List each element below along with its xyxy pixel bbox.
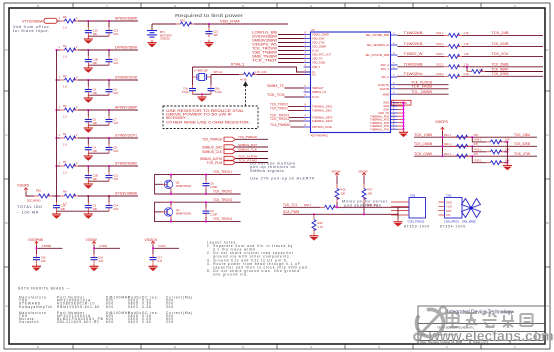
resistor R20 xyxy=(312,213,323,233)
crystal Y1 xyxy=(193,67,212,85)
svg-text:XPS 41: XPS 41 xyxy=(213,70,223,74)
svg-text:APW3V3SBW: APW3V3SBW xyxy=(115,17,137,21)
svg-text:10F: 10F xyxy=(93,207,98,211)
transistor Q1 xyxy=(155,175,192,194)
wire TCK_CNB xyxy=(414,136,537,138)
svg-text:TCK_32KB: TCK_32KB xyxy=(492,72,509,76)
node TCK_TNdT xyxy=(252,58,304,62)
svg-text:MMBT3904L: MMBT3904L xyxy=(176,184,192,188)
svg-text:SEL_24T/2BK_4BM: SEL_24T/2BK_4BM xyxy=(366,33,389,37)
table ferrite beads 1 xyxy=(19,296,193,309)
svg-text:TCK_TROV4: TCK_TROV4 xyxy=(213,217,232,221)
capacitor C6 xyxy=(85,80,98,95)
capacitor C8 xyxy=(203,175,218,194)
svg-text:10P: 10P xyxy=(213,33,218,37)
capacitor C5 xyxy=(85,110,98,125)
resistor R1b xyxy=(444,142,478,148)
svg-text:GND: GND xyxy=(383,104,389,108)
capacitor C13 xyxy=(106,21,119,36)
capacitor C2B xyxy=(85,166,98,181)
svg-text:C9: C9 xyxy=(113,88,117,92)
svg-text:TOTAL IDD: TOTAL IDD xyxy=(17,205,43,209)
resistor R13 xyxy=(471,145,510,153)
svg-text:C2B: C2B xyxy=(93,174,98,178)
ground xyxy=(84,36,93,44)
resistor R12 xyxy=(444,152,478,158)
power V3S3CN xyxy=(145,238,158,245)
wire SCA_PWM xyxy=(283,210,398,214)
resistor R7 xyxy=(57,160,79,175)
svg-text:C13: C13 xyxy=(113,29,118,33)
svg-text:C10: C10 xyxy=(93,29,98,33)
svg-text:10F: 10F xyxy=(93,61,98,65)
svg-text:32K_A: 32K_A xyxy=(381,75,389,79)
svg-text:10F: 10F xyxy=(61,207,66,211)
wire ground bus xyxy=(398,102,404,129)
wire xyxy=(88,124,109,126)
wire xyxy=(398,75,445,77)
wire xyxy=(78,165,138,167)
wire xyxy=(37,245,63,254)
svg-text:OTHER WISE USE 0 OHM RESISTOR.: OTHER WISE USE 0 OHM RESISTOR. xyxy=(166,120,250,124)
svg-text:SYW3V3CW: SYW3V3CW xyxy=(115,76,137,80)
svg-text:TCK_CNB: TCK_CNB xyxy=(414,133,432,137)
note text layout notes xyxy=(207,241,309,277)
node TCK_TROV1 xyxy=(270,106,304,110)
svg-text:200: 200 xyxy=(166,320,174,324)
svg-text:TCK_32KB: TCK_32KB xyxy=(514,142,530,146)
resistor R9 xyxy=(213,70,257,81)
svg-text:C11: C11 xyxy=(113,58,118,62)
node TCK_TROV4 xyxy=(270,117,304,121)
svg-text:Required to limit power: Required to limit power xyxy=(175,13,244,18)
svg-text:CN2: CN2 xyxy=(446,194,452,198)
svg-text:TCK_2CK: TCK_2CK xyxy=(492,52,510,56)
svg-text:TCK_24B: TCK_24B xyxy=(492,31,509,35)
capacitor C9 xyxy=(106,80,119,95)
svg-text:SCA_PWM: SCA_PWM xyxy=(283,210,299,214)
svg-text:1.0: 1.0 xyxy=(63,85,67,89)
svg-text:C4: C4 xyxy=(93,146,97,150)
svg-text:V3DDPS: V3DDPS xyxy=(435,120,448,124)
svg-text:CON_PROC: CON_PROC xyxy=(444,219,459,223)
wire xyxy=(462,55,543,57)
svg-text:300: 300 xyxy=(166,305,174,309)
svg-text:R1: R1 xyxy=(63,132,67,136)
svg-text:VDDIO_25WR: VDDIO_25WR xyxy=(312,33,329,37)
capacitor C7 xyxy=(106,110,119,125)
wire xyxy=(257,74,311,76)
ground xyxy=(84,125,93,133)
svg-text:SMBUS_CLK: SMBUS_CLK xyxy=(202,150,223,154)
svg-text:3.3CN: 3.3CN xyxy=(158,244,166,248)
svg-text:0.38: 0.38 xyxy=(142,305,152,309)
svg-text:TCA_PWM3D: TCA_PWM3D xyxy=(270,123,291,127)
svg-text:1UF: 1UF xyxy=(113,207,118,211)
wire xyxy=(155,202,241,221)
svg-text:600: 600 xyxy=(106,320,114,324)
svg-text:R6: R6 xyxy=(63,15,67,19)
svg-text:N_SS: N_SS xyxy=(312,49,319,53)
svg-text:2.2NF: 2.2NF xyxy=(210,185,218,189)
svg-text:R7: R7 xyxy=(63,160,67,164)
svg-text:V3S3PMB: V3S3PMB xyxy=(28,238,43,242)
svg-text:GND: GND xyxy=(383,101,389,105)
wire xyxy=(88,94,109,96)
svg-text:VDD_25WR: VDD_25WR xyxy=(312,45,326,49)
svg-text:T1W02KB: T1W02KB xyxy=(404,42,423,46)
svg-text:C8: C8 xyxy=(113,146,117,150)
note box xyxy=(163,106,258,129)
svg-text:MMBT3904L: MMBT3904L xyxy=(176,212,192,216)
node xyxy=(56,109,110,111)
wire xyxy=(462,34,543,36)
svg-text:TCK_TROV3: TCK_TROV3 xyxy=(213,198,232,202)
node xyxy=(56,79,110,81)
svg-text:GND: GND xyxy=(383,108,389,112)
svg-text:C3: C3 xyxy=(93,204,97,208)
svg-text:1UF: 1UF xyxy=(113,121,118,125)
svg-text:10F: 10F xyxy=(93,177,98,181)
svg-text:SYS3V3SBW: SYS3V3SBW xyxy=(115,191,137,195)
svg-text:SYW3V3CP1: SYW3V3CP1 xyxy=(115,134,137,138)
wire xyxy=(398,45,445,47)
wire xyxy=(152,23,176,25)
svg-text:VSB_T: VSB_T xyxy=(312,65,321,69)
ground xyxy=(84,153,93,161)
note text xyxy=(17,205,43,215)
svg-text:TCK_TCH: TCK_TCH xyxy=(267,93,285,97)
connector CN1 xyxy=(408,194,426,224)
svg-text:CON_TRACE: CON_TRACE xyxy=(408,219,425,223)
wire TCK_PLM2 xyxy=(235,158,268,162)
svg-text:1UF: 1UF xyxy=(157,259,162,263)
power V3DDPS xyxy=(435,120,448,131)
svg-text:C8: C8 xyxy=(210,181,214,185)
ground xyxy=(149,264,158,272)
note text xyxy=(13,25,51,33)
wire xyxy=(78,49,138,51)
node xyxy=(442,145,444,147)
wire TCK_CNW xyxy=(414,155,537,157)
svg-text:V3S3CN: V3S3CN xyxy=(145,238,158,242)
svg-text:1UF: 1UF xyxy=(113,91,118,95)
svg-text:TCL_2WNB: TCL_2WNB xyxy=(411,90,432,94)
wire TCK_CNNB xyxy=(414,145,537,147)
svg-text:TLCO: TLCO xyxy=(312,95,319,99)
svg-text:PWTRON_NCLE: PWTRON_NCLE xyxy=(312,125,332,129)
svg-text:0-768K 32F: 0-768K 32F xyxy=(194,69,208,73)
svg-text:2.2NF: 2.2NF xyxy=(210,212,218,216)
svg-text:R20: R20 xyxy=(318,221,323,225)
svg-text:R23 1: R23 1 xyxy=(437,52,445,56)
svg-text:R14 1: R14 1 xyxy=(475,138,483,142)
wire xyxy=(398,34,445,36)
svg-text:C5: C5 xyxy=(93,118,97,122)
wire xyxy=(94,245,120,254)
wire xyxy=(506,142,508,163)
resistor R21 xyxy=(437,31,470,37)
svg-text:SWRGHT: SWRGHT xyxy=(312,86,324,90)
resistor R19 xyxy=(437,72,470,78)
svg-text:5.6pF: 5.6pF xyxy=(215,90,222,94)
pin names right xyxy=(365,33,389,131)
resistor R15 xyxy=(471,155,510,164)
svg-text:R17: R17 xyxy=(368,188,373,192)
resistor R11 xyxy=(444,133,478,139)
capacitor C15 xyxy=(33,254,46,263)
svg-text:C14: C14 xyxy=(113,204,118,208)
svg-text:30Z_BEAD: 30Z_BEAD xyxy=(27,199,41,203)
svg-text:RBM100505-601-50: RBM100505-601-50 xyxy=(57,305,100,309)
svg-text:1.0: 1.0 xyxy=(63,26,67,30)
node xyxy=(56,165,110,167)
wire SMBUS_TCK xyxy=(235,147,268,151)
wire xyxy=(78,79,138,81)
capacitor C17 xyxy=(150,254,163,263)
node xyxy=(56,195,110,197)
svg-text:A: A xyxy=(546,304,548,308)
node 3.3SW xyxy=(93,244,107,249)
op-amp U8 ADT7460 xyxy=(311,28,391,138)
svg-text:THERMAL_DIA2: THERMAL_DIA2 xyxy=(312,109,332,113)
wire xyxy=(153,245,179,254)
svg-text:10F: 10F xyxy=(93,121,98,125)
svg-text:2 3: 2 3 xyxy=(479,67,483,71)
svg-text:1UF: 1UF xyxy=(98,259,103,263)
svg-text:1 PL 4.82: 1 PL 4.82 xyxy=(255,70,267,74)
svg-text:MWB: MWB xyxy=(383,92,390,96)
node TCA_PWM3D xyxy=(270,123,304,127)
svg-text:R21 1: R21 1 xyxy=(437,31,445,35)
svg-text:SNS: SNS xyxy=(446,209,452,213)
node xyxy=(201,93,203,95)
wire TCK_PWRGD xyxy=(235,135,268,139)
svg-text:47K: 47K xyxy=(474,142,479,146)
node TCK_TROV3 xyxy=(270,113,304,117)
connector CN2 xyxy=(444,194,462,224)
pin names left xyxy=(312,33,333,130)
svg-text:SEL_2FT/27W_4BM: SEL_2FT/27W_4BM xyxy=(365,53,389,57)
capacitor C12 xyxy=(106,166,119,181)
svg-text:T1W02_W: T1W02_W xyxy=(404,52,423,56)
svg-text:VDD_2TW: VDD_2TW xyxy=(312,41,325,45)
svg-text:C1B: C1B xyxy=(93,58,98,62)
node xyxy=(56,49,110,51)
resistor R2 xyxy=(57,74,79,89)
svg-text:R22 1: R22 1 xyxy=(437,63,445,67)
watermark hanzi xyxy=(447,312,533,328)
wire xyxy=(78,109,138,111)
resistor R1 xyxy=(57,132,79,147)
svg-text:C7: C7 xyxy=(113,118,117,122)
svg-text:R8 1: R8 1 xyxy=(180,19,186,23)
svg-text:1.0: 1.0 xyxy=(63,171,67,175)
node 3.3CN xyxy=(152,244,166,249)
svg-text:FAN_MFB2: FAN_MFB2 xyxy=(462,219,476,223)
resistor R19 xyxy=(335,177,346,208)
svg-text:T1W02NdB: T1W02NdB xyxy=(404,63,423,67)
pin numbers xyxy=(305,31,396,130)
svg-text:R24 1: R24 1 xyxy=(437,42,445,46)
svg-text:GND: GND xyxy=(446,200,452,204)
svg-text:ZNK_A: ZNK_A xyxy=(381,63,390,67)
ground xyxy=(503,163,512,171)
svg-text:SMBUS_LB: SMBUS_LB xyxy=(312,90,326,94)
svg-text:SMBUS_DAT: SMBUS_DAT xyxy=(238,143,257,147)
wire xyxy=(78,137,138,139)
svg-text:R15 1: R15 1 xyxy=(475,158,483,162)
node TCK_TROVW xyxy=(252,46,304,50)
svg-text:SEL_SEVIEWS_IN: SEL_SEVIEWS_IN xyxy=(367,43,389,47)
svg-text:C17: C17 xyxy=(157,256,162,260)
title text xyxy=(420,310,543,345)
wire xyxy=(155,175,241,194)
capacitor C3 xyxy=(85,196,98,211)
ground xyxy=(394,219,403,227)
svg-text:R3: R3 xyxy=(63,104,67,108)
svg-text:TCK_PLM: TCK_PLM xyxy=(207,161,223,165)
svg-text:1 3b: 1 3b xyxy=(464,52,470,56)
offpage connector TCK_PWRGD xyxy=(202,137,235,142)
svg-text:R19: R19 xyxy=(341,188,346,192)
resistor R18 xyxy=(304,203,338,210)
svg-text:10K: 10K xyxy=(341,192,346,196)
resistor R8 xyxy=(176,19,194,26)
svg-text:TCK_CNM: TCK_CNM xyxy=(514,133,530,137)
svg-text:T1W02Kb: T1W02Kb xyxy=(404,72,423,76)
svg-text:SMBus signals.: SMBus signals. xyxy=(250,169,286,173)
node xyxy=(336,206,338,208)
wire xyxy=(485,71,543,73)
node xyxy=(170,174,207,195)
capacitor C4 xyxy=(85,138,98,153)
capacitor C25 xyxy=(208,85,223,94)
svg-text:one ground via.: one ground via. xyxy=(213,272,248,276)
svg-text:TCK_TNdT: TCK_TNdT xyxy=(252,58,277,62)
node SYS3V3SBW xyxy=(252,34,304,38)
capacitor C1b xyxy=(53,196,66,211)
resistor R25 xyxy=(466,66,485,74)
svg-text:VDD_RTC_OUT: VDD_RTC_OUT xyxy=(312,53,332,57)
svg-text:TCK_27W: TCK_27W xyxy=(514,152,530,156)
svg-text:1.0: 1.0 xyxy=(63,55,67,59)
svg-text:KamayaHmpTch: KamayaHmpTch xyxy=(19,305,53,309)
svg-text:C21: C21 xyxy=(213,30,218,34)
svg-text:1 3b: 1 3b xyxy=(464,72,470,76)
svg-text:C15: C15 xyxy=(41,256,46,260)
battery BT1 xyxy=(147,24,172,41)
svg-text:KLIDCTR: KLIDCTR xyxy=(378,83,389,87)
svg-text:1 3b: 1 3b xyxy=(464,31,470,35)
svg-text:T1W02AB: T1W02AB xyxy=(404,31,423,35)
svg-text:87353-1000: 87353-1000 xyxy=(404,224,430,228)
resistor R24 xyxy=(437,42,470,48)
wire xyxy=(338,203,409,207)
svg-text:NOTE:FERRITE BEADS —: NOTE:FERRITE BEADS — xyxy=(18,287,70,291)
svg-text:TCK_CNNB: TCK_CNNB xyxy=(414,142,432,146)
svg-text:A: A xyxy=(5,304,7,308)
svg-text:0603: 0603 xyxy=(128,320,139,324)
ferrite bead FB1 xyxy=(27,188,52,202)
svg-text:B: B xyxy=(546,221,548,225)
node TCK_FA2B xyxy=(398,85,449,89)
svg-text:47K: 47K xyxy=(474,152,479,156)
svg-text:VDD_RTAF: VDD_RTAF xyxy=(220,20,240,24)
node xyxy=(442,136,444,138)
svg-text:10F: 10F xyxy=(93,91,98,95)
title block xyxy=(418,306,545,344)
wire xyxy=(462,75,543,77)
svg-text:Q1: Q1 xyxy=(176,181,180,185)
resistor R3 xyxy=(57,104,79,119)
svg-text:DVW3V3SW: DVW3V3SW xyxy=(115,46,137,50)
offpage connector SMBUS_ALRT# xyxy=(200,156,235,161)
node TCL_2WNB xyxy=(398,90,449,94)
node V3S3PS_W1 xyxy=(252,42,304,46)
svg-text:C9: C9 xyxy=(210,209,214,213)
svg-text:1UF: 1UF xyxy=(41,259,46,263)
note text xyxy=(342,200,388,208)
svg-text:for Slave Input.: for Slave Input. xyxy=(13,29,50,33)
svg-text:TCK_3W4P: TCK_3W4P xyxy=(492,67,509,71)
svg-text:THERMAL_DET4: THERMAL_DET4 xyxy=(312,119,333,123)
wire xyxy=(397,207,399,219)
svg-text:10K: 10K xyxy=(368,192,373,196)
note text xyxy=(250,162,315,181)
svg-text:R1b 1: R1b 1 xyxy=(444,142,452,146)
svg-text:CTL: CTL xyxy=(446,213,451,217)
wire xyxy=(26,192,34,197)
svg-text:SYW3V3SW2: SYW3V3SW2 xyxy=(115,162,137,166)
svg-text:TCK_TROV1: TCK_TROV1 xyxy=(270,106,288,110)
wire xyxy=(88,180,109,182)
svg-text:47K: 47K xyxy=(474,133,479,137)
capacitor C10 xyxy=(85,21,98,36)
offpage connector SMBUS_CLK xyxy=(202,149,235,154)
ground xyxy=(148,40,157,48)
svg-text:B: B xyxy=(5,221,7,225)
svg-text:R11 1: R11 1 xyxy=(444,133,451,137)
ground xyxy=(84,95,93,103)
svg-text:SMBUS_DAT: SMBUS_DAT xyxy=(202,145,222,149)
resistor R4 xyxy=(57,44,79,59)
svg-text:5.6pF: 5.6pF xyxy=(182,90,189,94)
svg-text:V3SSW: V3SSW xyxy=(86,238,97,242)
ground xyxy=(32,264,41,272)
ground xyxy=(84,211,93,219)
resistor R14 xyxy=(471,136,510,144)
svg-text:V3S3PS: V3S3PS xyxy=(17,184,29,188)
wire pins xyxy=(439,202,445,215)
wire xyxy=(88,35,109,37)
svg-text:VDD_TN: VDD_TN xyxy=(312,57,323,61)
node xyxy=(170,201,207,222)
offpage connector xyxy=(44,18,57,23)
svg-text:1UF: 1UF xyxy=(113,61,118,65)
ground xyxy=(52,211,61,219)
resistor R23 xyxy=(437,52,470,58)
svg-text:XTAL1: XTAL1 xyxy=(231,63,245,67)
svg-text:and desktop fan: and desktop fan xyxy=(344,204,382,208)
node SMB_TNdBW xyxy=(252,54,304,58)
svg-text:TCK_324B: TCK_324B xyxy=(492,42,509,46)
wire TCK_TC1 xyxy=(283,203,320,207)
capacitor C16 xyxy=(91,254,104,263)
ground xyxy=(205,40,214,48)
svg-text:CN1: CN1 xyxy=(410,194,416,198)
capacitor C21 xyxy=(206,24,219,37)
